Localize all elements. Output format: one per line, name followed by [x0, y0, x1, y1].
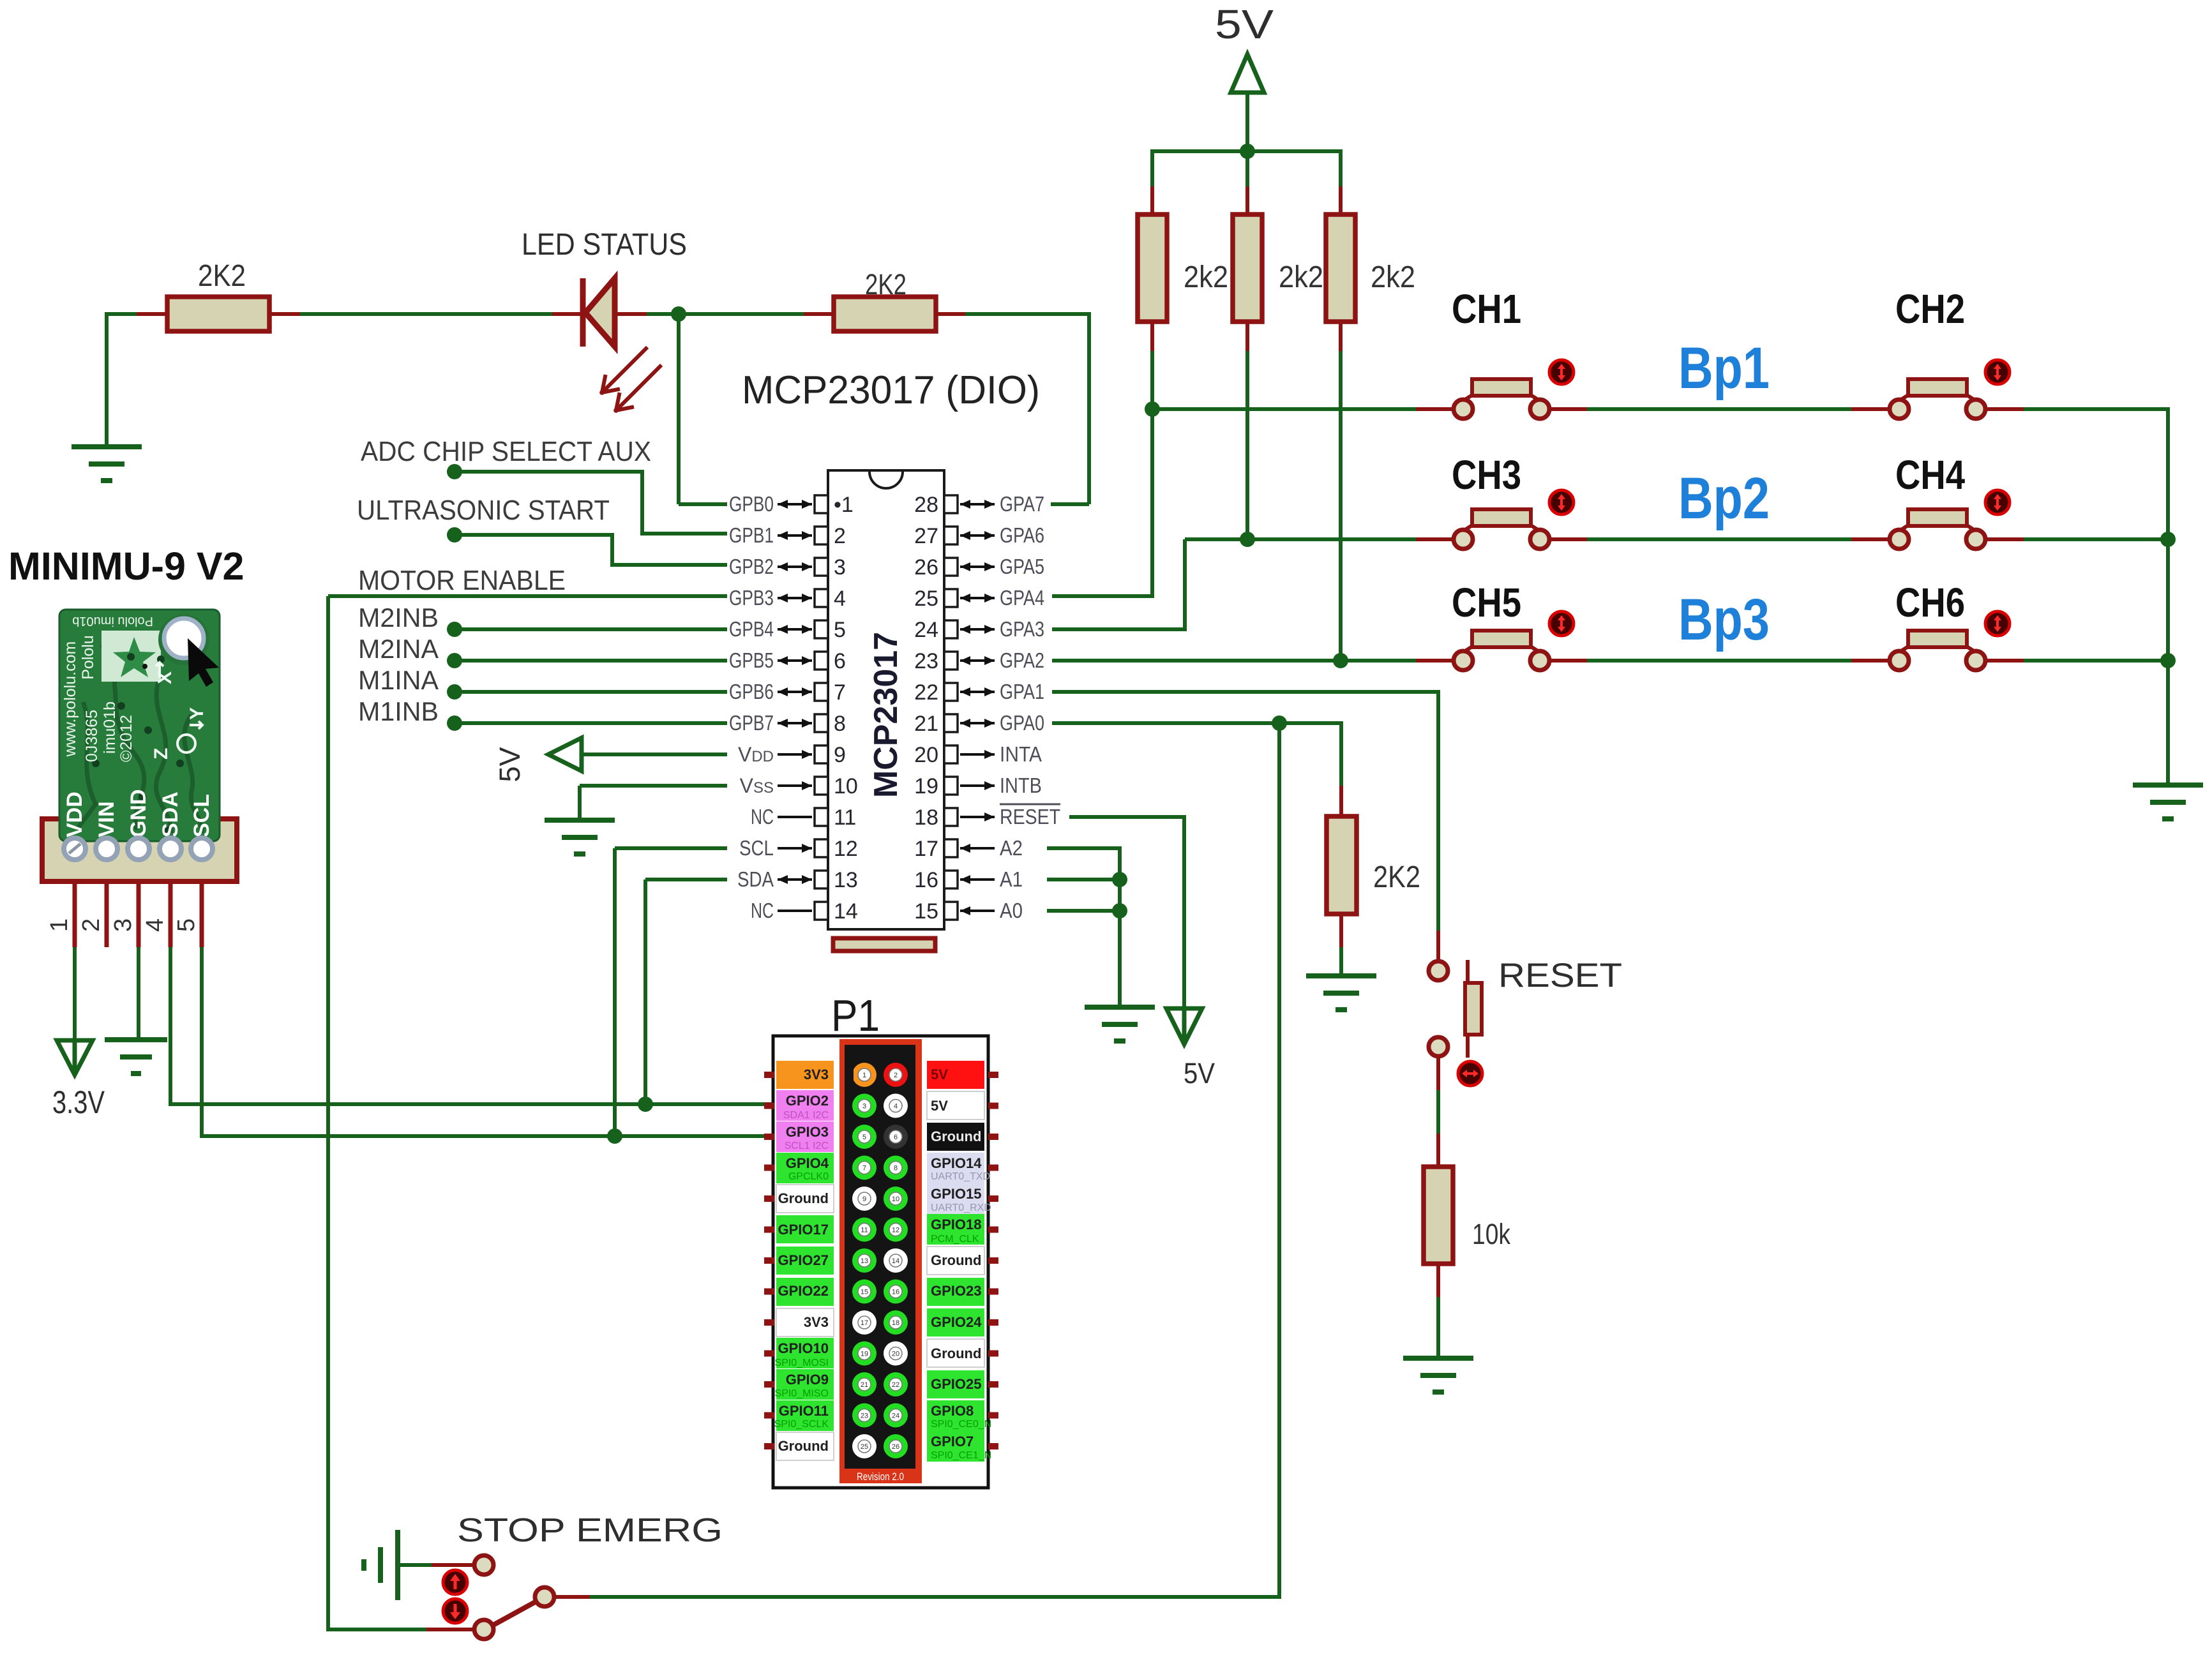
wire M1INA — [455, 690, 727, 694]
svg-text:3: 3 — [834, 555, 846, 580]
indicator up — [443, 1570, 467, 1594]
wire SCL pin12 — [615, 846, 727, 850]
op-amp U1 MCP23017 body — [828, 470, 944, 929]
wire Bp1 red stub left — [1416, 407, 1455, 411]
pin 3 GPB2 — [815, 558, 828, 576]
svg-text:12: 12 — [834, 837, 858, 861]
svg-text:MOTOR ENABLE: MOTOR ENABLE — [358, 565, 566, 596]
wire GPA3 to Bp2 — [1052, 627, 1187, 631]
svg-text:SPI0_CE0_N: SPI0_CE0_N — [931, 1419, 991, 1430]
svg-text:4: 4 — [834, 587, 846, 611]
svg-text:GPB2: GPB2 — [729, 555, 774, 578]
svg-text:20: 20 — [914, 743, 938, 767]
pin 7 GPB6 — [815, 683, 828, 701]
wire SDA vertical — [643, 880, 647, 1104]
pin 14 NC — [815, 902, 828, 920]
svg-text:2: 2 — [78, 918, 105, 932]
svg-text:19: 19 — [914, 774, 938, 798]
wire R4 to Bp2 junction — [1245, 351, 1249, 539]
wire Bp1 right — [1984, 407, 2024, 411]
svg-text:M1INA: M1INA — [358, 665, 439, 695]
wire 10k bottom stub — [1436, 1264, 1440, 1297]
switch SW1 STOP EMERG — [474, 1555, 493, 1575]
svg-text:GPIO7: GPIO7 — [931, 1434, 974, 1449]
svg-text:Revision 2.0: Revision 2.0 — [857, 1471, 904, 1483]
svg-text:GPIO8: GPIO8 — [931, 1403, 974, 1419]
button RESET — [1466, 960, 1470, 983]
svg-text:3V3: 3V3 — [804, 1067, 829, 1082]
connector P1 Raspberry Pi header — [773, 1036, 988, 1488]
svg-text:6: 6 — [894, 1134, 898, 1141]
svg-text:13: 13 — [834, 868, 858, 892]
LED D1 LED STATUS — [583, 278, 615, 347]
svg-text:5: 5 — [173, 918, 200, 932]
P1 row 13: Ground / GPIO7 — [764, 1443, 774, 1449]
svg-text:SDA: SDA — [737, 867, 774, 891]
pin 9 VDD — [815, 745, 828, 763]
svg-text:MCP23017 (DIO): MCP23017 (DIO) — [742, 368, 1040, 412]
svg-text:X: X — [154, 671, 176, 684]
svg-text:A0: A0 — [1000, 899, 1023, 922]
P1 row 10: GPIO10 / Ground — [764, 1351, 774, 1357]
pin 27 GPA6 — [944, 527, 958, 544]
pin 12 SCL — [815, 839, 828, 857]
svg-text:GPB7: GPB7 — [729, 711, 774, 735]
pin 23 GPA2 — [944, 652, 958, 670]
P1 row 12: GPIO11 / GPIO8 — [764, 1412, 774, 1419]
svg-text:23: 23 — [861, 1412, 868, 1420]
wire MINIMU pin3 GND — [137, 881, 141, 947]
svg-text:GPIO17: GPIO17 — [778, 1222, 829, 1238]
wire Bp2 middle — [1548, 537, 1587, 541]
ground (top-left) — [71, 447, 142, 481]
svg-text:M2INB: M2INB — [358, 603, 439, 633]
svg-text:1: 1 — [862, 1072, 866, 1079]
svg-text:CH2: CH2 — [1895, 286, 1965, 332]
ground (10k) — [1403, 1358, 1473, 1392]
svg-text:10: 10 — [892, 1195, 899, 1203]
wire Bp2 red stub left — [1416, 537, 1455, 541]
pin 24 GPA3 — [944, 620, 958, 638]
wire 10k to ground — [1436, 1297, 1440, 1358]
svg-text:7: 7 — [862, 1165, 866, 1172]
P1 row 8: GPIO22 / GPIO23 — [764, 1289, 774, 1295]
wire R5 bottom stub — [1339, 322, 1343, 351]
ground (MINIMU) — [105, 1040, 167, 1074]
wire MINIMU pin4 SDA — [169, 881, 173, 947]
svg-text:A1: A1 — [1000, 867, 1023, 891]
svg-text:SPI0_CE1_N: SPI0_CE1_N — [931, 1450, 991, 1461]
wire VSS — [580, 784, 727, 788]
wire A2 A1 A0 to ground — [1047, 846, 1122, 850]
wire GPA4 to Bp1 — [1052, 594, 1154, 598]
svg-text:GPIO15: GPIO15 — [931, 1186, 981, 1202]
ground (A2 A1 A0) — [1085, 1007, 1155, 1041]
svg-text:9: 9 — [862, 1195, 866, 1203]
wire bus to R3 — [1150, 149, 1154, 186]
svg-text:ULTRASONIC START: ULTRASONIC START — [357, 495, 610, 526]
svg-text:6: 6 — [834, 649, 846, 673]
wire Bp3 red stub left — [1416, 659, 1455, 663]
svg-text:19: 19 — [861, 1351, 868, 1358]
pin 10 VSS — [815, 777, 828, 795]
svg-text:GPCLK0: GPCLK0 — [788, 1171, 829, 1182]
pin 19 INTB — [944, 777, 958, 795]
svg-text:INTA: INTA — [1000, 742, 1042, 766]
svg-text:CH3: CH3 — [1452, 452, 1521, 498]
svg-text:Pololu: Pololu — [79, 635, 97, 680]
wire R3 bottom stub — [1150, 322, 1154, 351]
pin 18 RESET — [944, 808, 958, 826]
power 3.3V — [57, 1040, 93, 1075]
pin 6 GPB5 — [815, 652, 828, 670]
svg-text:RESET: RESET — [1000, 805, 1060, 828]
MINIMU-9 V2 board — [59, 610, 220, 841]
svg-text:GND: GND — [126, 789, 151, 837]
svg-text:8: 8 — [894, 1165, 898, 1172]
svg-text:15: 15 — [914, 899, 938, 924]
wire VDD — [582, 753, 727, 756]
svg-text:GPIO9: GPIO9 — [786, 1372, 829, 1388]
svg-text:17: 17 — [861, 1319, 868, 1327]
indicator RESET — [1458, 1061, 1482, 1086]
P1 row 11: GPIO9 / GPIO25 — [764, 1381, 774, 1388]
svg-text:GPA4: GPA4 — [1000, 586, 1044, 610]
power 5V (top) — [1231, 54, 1264, 93]
svg-text:2K2: 2K2 — [865, 268, 907, 301]
svg-text:2K2: 2K2 — [1373, 860, 1420, 894]
svg-text:1: 1 — [46, 918, 73, 932]
svg-text:SPI0_MOSI: SPI0_MOSI — [775, 1358, 829, 1368]
svg-text:SPI0_MISO: SPI0_MISO — [775, 1388, 829, 1399]
pin 2 GPB1 — [815, 527, 828, 544]
svg-text:GPIO27: GPIO27 — [778, 1252, 829, 1268]
svg-text:2: 2 — [834, 524, 846, 548]
svg-text:2k2: 2k2 — [1279, 260, 1323, 294]
P1 row 1: 3V3 / 5V — [764, 1072, 774, 1078]
wire GPA0 riser to stop-emerg — [1277, 723, 1281, 1599]
svg-text:imu01b: imu01b — [101, 701, 119, 754]
resistor R7 10k — [1424, 1167, 1453, 1264]
wire R6 bottom stub — [1339, 914, 1343, 947]
wire GPA0 — [1052, 721, 1343, 725]
P1 row 2: GPIO2 / 5V — [764, 1103, 774, 1109]
svg-text:Bp2: Bp2 — [1678, 466, 1770, 531]
svg-text:23: 23 — [914, 649, 938, 673]
junction A1 — [1112, 872, 1127, 887]
svg-text:21: 21 — [914, 712, 938, 736]
wire stop-emerg bottom — [328, 1628, 426, 1631]
svg-text:5V: 5V — [493, 747, 526, 782]
svg-text:21: 21 — [861, 1381, 868, 1389]
IC bottom socket bar — [833, 938, 935, 951]
svg-text:Y: Y — [186, 707, 207, 720]
ground (VSS) — [545, 820, 615, 854]
pin 28 GPA7 — [944, 495, 958, 513]
svg-text:RESET: RESET — [1498, 957, 1622, 994]
pin 20 INTA — [944, 745, 958, 763]
svg-text:16: 16 — [914, 868, 938, 892]
wire Bp2 right — [1984, 537, 2024, 541]
power 5V (down arrow) — [1166, 1008, 1202, 1044]
wire junction down to GPB0 — [677, 314, 681, 504]
pin 26 GPA5 — [944, 558, 958, 576]
button CH3 — [1454, 509, 1549, 549]
svg-text:0J3865: 0J3865 — [83, 710, 101, 762]
svg-text:www.pololu.com: www.pololu.com — [61, 641, 79, 758]
svg-text:MINIMU-9 V2: MINIMU-9 V2 — [8, 544, 244, 588]
pin 13 SDA — [815, 871, 828, 888]
junction CH4/bus — [2160, 532, 2176, 547]
svg-text:GPIO22: GPIO22 — [778, 1283, 829, 1299]
svg-text:5V: 5V — [931, 1067, 948, 1082]
svg-text:5V: 5V — [931, 1098, 948, 1114]
wire R3 to Bp1 junction — [1150, 351, 1154, 409]
svg-text:15: 15 — [861, 1289, 868, 1296]
wire MINIMU pin5 SCL — [200, 881, 204, 947]
svg-text:7: 7 — [834, 680, 846, 705]
wire M2INA — [455, 659, 727, 663]
svg-text:26: 26 — [892, 1443, 899, 1451]
svg-text:GPIO18: GPIO18 — [931, 1217, 981, 1232]
svg-text:SPI0_SCLK: SPI0_SCLK — [774, 1419, 829, 1430]
svg-text:LED STATUS: LED STATUS — [522, 228, 687, 262]
svg-text:STOP EMERG: STOP EMERG — [457, 1512, 723, 1549]
P1 row 9: 3V3 / GPIO24 — [764, 1319, 774, 1326]
wire MOTOR ENABLE GPB3 — [328, 594, 727, 598]
P1 row 6: GPIO17 / GPIO18 — [764, 1227, 774, 1233]
svg-text:GPB6: GPB6 — [729, 680, 774, 703]
pin 25 GPA4 — [944, 589, 958, 607]
svg-text:Z: Z — [151, 748, 172, 760]
wire Bp1 feed — [1152, 407, 1416, 411]
P1 row 5: Ground / GPIO15 — [764, 1195, 774, 1202]
button CH5 — [1454, 631, 1549, 670]
svg-text:UART0_TXD: UART0_TXD — [931, 1171, 990, 1182]
svg-text:14: 14 — [892, 1257, 899, 1265]
svg-text:GPIO24: GPIO24 — [931, 1314, 982, 1330]
pin 17 A2 — [944, 839, 958, 857]
svg-text:GPIO3: GPIO3 — [786, 1124, 829, 1140]
wire ULTRASONIC START to GPB2 — [455, 533, 614, 537]
wire RESET to 10k — [1436, 1090, 1440, 1134]
svg-text:9: 9 — [834, 743, 846, 767]
svg-text:SCL: SCL — [739, 836, 774, 860]
svg-text:27: 27 — [914, 524, 938, 548]
button CH6 — [1890, 631, 1985, 670]
svg-text:26: 26 — [914, 555, 938, 580]
P1 row 3: GPIO3 / Ground — [764, 1134, 774, 1140]
wire Bp3 middle — [1548, 659, 1587, 663]
svg-text:4: 4 — [142, 918, 169, 932]
svg-text:11: 11 — [834, 805, 856, 830]
pin 11 NC — [815, 808, 828, 826]
svg-text:GPB0: GPB0 — [729, 492, 774, 516]
svg-text:GPB5: GPB5 — [729, 648, 774, 672]
svg-text:CH4: CH4 — [1895, 452, 1965, 498]
svg-text:VIN: VIN — [94, 801, 119, 837]
svg-text:11: 11 — [861, 1227, 868, 1234]
svg-text:Ground: Ground — [778, 1190, 829, 1206]
svg-text:A2: A2 — [1000, 836, 1023, 860]
svg-text:•1: •1 — [834, 493, 854, 517]
svg-text:2k2: 2k2 — [1371, 260, 1415, 294]
junction GPA0 / stop-emerg riser — [1272, 715, 1287, 731]
svg-text:SCL1 I2C: SCL1 I2C — [785, 1141, 829, 1151]
svg-text:CH1: CH1 — [1452, 286, 1521, 332]
svg-text:GPA0: GPA0 — [1000, 711, 1044, 735]
svg-text:5V: 5V — [1215, 1, 1274, 47]
svg-text:Pololu imu01b: Pololu imu01b — [72, 614, 153, 628]
svg-text:GPA3: GPA3 — [1000, 617, 1044, 641]
junction Bp3 pullup — [1333, 653, 1348, 668]
wire SDA pin13 — [645, 878, 727, 881]
svg-text:16: 16 — [892, 1289, 899, 1296]
wire R1 left to ground corner — [107, 312, 137, 316]
svg-text:14: 14 — [834, 899, 858, 924]
svg-text:GPA7: GPA7 — [1000, 492, 1044, 516]
junction SCL — [607, 1128, 622, 1144]
svg-text:18: 18 — [914, 805, 938, 830]
svg-text:2K2: 2K2 — [198, 259, 246, 293]
wire MINIMU pin2 VIN stub — [105, 881, 109, 947]
svg-text:12: 12 — [892, 1227, 899, 1234]
svg-text:8: 8 — [834, 712, 846, 736]
junction Bp1 pullup — [1145, 401, 1160, 417]
svg-text:INTB: INTB — [1000, 774, 1042, 797]
wire 10k top stub — [1436, 1134, 1440, 1168]
svg-text:ADC CHIP SELECT AUX: ADC CHIP SELECT AUX — [361, 436, 651, 467]
svg-text:20: 20 — [892, 1351, 899, 1358]
P1 row 7: GPIO27 / Ground — [764, 1257, 774, 1264]
button CH1 — [1454, 379, 1549, 419]
junction CH6/bus — [2160, 653, 2176, 668]
svg-text:25: 25 — [861, 1443, 868, 1451]
svg-text:Bp1: Bp1 — [1678, 336, 1770, 401]
svg-text:3: 3 — [862, 1103, 866, 1111]
svg-text:10: 10 — [834, 774, 858, 798]
svg-text:NC: NC — [751, 805, 774, 828]
wire LED cathode stub — [615, 312, 647, 316]
svg-text:24: 24 — [892, 1412, 899, 1420]
svg-text:GPA5: GPA5 — [1000, 555, 1044, 578]
svg-text:GPIO23: GPIO23 — [931, 1283, 981, 1299]
svg-text:M2INA: M2INA — [358, 634, 439, 664]
svg-text:3V3: 3V3 — [804, 1314, 829, 1330]
wire M1INB — [455, 721, 727, 725]
svg-text:5: 5 — [862, 1134, 866, 1141]
junction SDA — [638, 1097, 653, 1112]
svg-text:Ground: Ground — [931, 1128, 981, 1144]
svg-text:GPA2: GPA2 — [1000, 648, 1044, 672]
wire GPA2 Bp3 feed — [1052, 659, 1416, 663]
power 5V VDD (pin 9) — [548, 738, 582, 771]
pin 1 GPB0 — [815, 495, 828, 513]
svg-text:Ground: Ground — [778, 1438, 829, 1454]
svg-text:CH5: CH5 — [1452, 580, 1521, 625]
svg-text:SDA: SDA — [158, 791, 183, 837]
wire RESET# to 5V — [1069, 815, 1186, 819]
svg-text:5: 5 — [834, 618, 846, 642]
indicator down — [443, 1599, 467, 1623]
junction Bp2 pullup — [1240, 532, 1255, 547]
svg-text:Bp3: Bp3 — [1678, 587, 1770, 652]
svg-text:GPIO14: GPIO14 — [931, 1155, 982, 1171]
svg-text:24: 24 — [914, 618, 938, 642]
pin 5 GPB4 — [815, 620, 828, 638]
wire R4 bottom stub — [1245, 322, 1249, 351]
svg-text:18: 18 — [892, 1319, 899, 1327]
wire right ground bus — [2166, 409, 2170, 785]
svg-text:5V: 5V — [1184, 1057, 1215, 1090]
pin 8 GPB7 — [815, 714, 828, 732]
svg-text:P1: P1 — [831, 991, 880, 1040]
connector J1 MINIMU header — [42, 819, 237, 881]
pin 22 GPA1 — [944, 683, 958, 701]
wire RESET bottom stub — [1436, 1056, 1440, 1090]
button CH2 — [1890, 379, 1985, 419]
svg-text:GPIO10: GPIO10 — [778, 1340, 829, 1356]
svg-text:Ground: Ground — [931, 1345, 981, 1361]
wire LED to R2 — [647, 312, 804, 316]
svg-text:Ground: Ground — [931, 1252, 981, 1268]
button CH4 — [1890, 509, 1985, 549]
svg-text:3.3V: 3.3V — [52, 1084, 105, 1120]
ground (buttons) — [2133, 785, 2203, 819]
ground (stop emerg, rotated) — [364, 1530, 398, 1600]
wire SCL vertical — [613, 848, 617, 1136]
resistor R5 2k2 — [1326, 214, 1355, 322]
svg-text:22: 22 — [914, 680, 938, 705]
svg-text:2k2: 2k2 — [1184, 260, 1228, 294]
resistor R4 2k2 — [1233, 214, 1262, 322]
svg-text:17: 17 — [914, 837, 938, 861]
svg-text:25: 25 — [914, 587, 938, 611]
svg-text:GPA6: GPA6 — [1000, 523, 1044, 547]
wire Bp3 right — [1984, 659, 2024, 663]
wire R6 top stub — [1339, 786, 1343, 818]
svg-text:SCL: SCL — [190, 794, 214, 837]
wire R2 to GPA7 — [965, 312, 1091, 316]
wire 5V bus — [1150, 149, 1343, 153]
svg-text:GPB4: GPB4 — [729, 617, 774, 641]
wire R1 to LED — [300, 312, 552, 316]
svg-text:3: 3 — [110, 918, 137, 932]
ground (R6) — [1306, 976, 1376, 1010]
svg-text:4: 4 — [894, 1103, 898, 1111]
svg-text:GPIO25: GPIO25 — [931, 1376, 981, 1392]
pin 15 A0 — [944, 902, 958, 920]
pin 21 GPA0 — [944, 714, 958, 732]
P1 row 4: GPIO4 / GPIO14 — [764, 1165, 774, 1171]
svg-text:GPB3: GPB3 — [729, 586, 774, 610]
svg-text:13: 13 — [861, 1257, 868, 1265]
svg-text:SDA1 I2C: SDA1 I2C — [783, 1110, 829, 1121]
svg-text:28: 28 — [914, 493, 938, 517]
pin 16 A1 — [944, 871, 958, 888]
svg-text:MCP23017: MCP23017 — [868, 632, 905, 798]
svg-text:GPB1: GPB1 — [729, 523, 774, 547]
svg-text:PCM_CLK: PCM_CLK — [931, 1234, 979, 1245]
wire bus to R5 — [1339, 149, 1343, 186]
svg-text:GPA1: GPA1 — [1000, 680, 1044, 703]
svg-text:10k: 10k — [1472, 1218, 1510, 1250]
svg-text:GPIO2: GPIO2 — [786, 1093, 829, 1109]
resistor R6 2K2 — [1327, 816, 1357, 914]
resistor R3 2k2 — [1138, 214, 1167, 322]
junction 5V bus — [1240, 144, 1255, 159]
wire RESET top stub — [1436, 931, 1440, 961]
